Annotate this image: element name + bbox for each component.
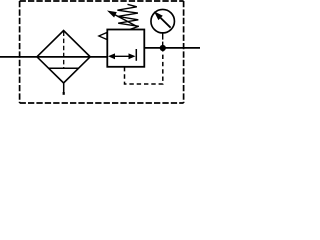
enclosure left dashed edge xyxy=(19,1,21,103)
pilot feedback line (dashed) xyxy=(125,51,163,84)
flow path arrowhead left xyxy=(108,53,115,59)
pressure gauge G1 body xyxy=(151,9,175,33)
adjustment arrow shaft xyxy=(115,15,138,27)
adjustment arrowhead xyxy=(107,11,117,18)
junction node (dot) xyxy=(160,45,166,51)
wire: main line inlet segment xyxy=(0,56,107,58)
wire: main line outlet segment xyxy=(144,47,200,49)
gauge needle shaft xyxy=(161,18,171,28)
flow path arrowhead right xyxy=(129,53,136,59)
relief vent arrowhead (open) xyxy=(99,33,107,40)
adjustment spring xyxy=(117,4,138,29)
water separator baffle (chord) xyxy=(49,67,79,69)
filter element (dashed centerline) xyxy=(63,32,65,69)
enclosure right dashed edge xyxy=(183,1,185,103)
filter F1 body (diamond) xyxy=(37,31,90,84)
gauge needle head xyxy=(154,11,163,20)
condensate drain line xyxy=(63,83,65,93)
gauge connection line lower dash xyxy=(162,42,164,46)
enclosure (dashed assembly frame) xyxy=(20,0,184,2)
gauge connection line upper dash xyxy=(162,32,164,40)
valve seat bar xyxy=(135,49,137,61)
condensate drain tip xyxy=(63,92,65,95)
regulator flow path shaft xyxy=(110,55,131,57)
regulator R1 body xyxy=(107,30,144,67)
enclosure bottom dashed edge xyxy=(20,102,184,104)
